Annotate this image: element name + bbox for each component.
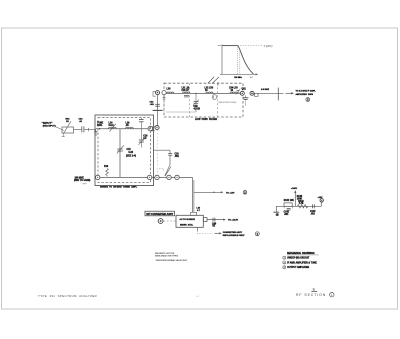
faint dashed drop from LPF [156,116,158,167]
terminal circle on rail x97.7 [96,175,100,179]
bracket left of lower connector [153,126,155,130]
page number [196,296,200,298]
bottom rail wire [95,176,192,178]
capacitor C16 branch [139,129,144,148]
svg-text:SEMICONDUCTOR TYPES: SEMICONDUCTOR TYPES [155,256,179,258]
label C15 value [126,149,136,157]
svg-text:R141 10K: R141 10K [284,199,295,202]
trimmer near output [236,89,240,95]
reference item 1 [283,256,310,259]
svg-text:TYPE 491 SPECTRUM ANALYZER: TYPE 491 SPECTRUM ANALYZER [38,294,98,298]
svg-text:100K: 100K [297,199,303,201]
svg-text:B: B [313,287,315,291]
svg-text:1ST CONVERTER ASSY: 1ST CONVERTER ASSY [146,213,173,216]
graph horizontal axis [220,73,258,75]
shield bar on column [153,109,163,111]
1st converter label bar [145,211,175,216]
attenuator R10 [62,121,74,134]
divider top tick [217,82,219,86]
graph dashed horizontal [240,45,263,47]
mixer top flange [191,212,197,215]
terminal circle +12V [320,199,323,202]
ground under Q31 [243,95,249,106]
inductor L16 label [126,122,131,126]
coax connector circle lower x157 [155,125,159,129]
label C16 value [143,135,148,139]
label on column [150,102,155,106]
svg-text:IF AMP, AMPLIFIER & TUNE: IF AMP, AMPLIFIER & TUNE [287,261,317,264]
label R141 [284,199,295,202]
inductor L32 [206,92,213,93]
label TO +12V [226,192,235,194]
ground bus inside LPF [164,99,196,112]
node junction at amp input [99,128,100,129]
svg-text:TO +12.5V: TO +12.5V [228,220,239,222]
node on +12V wire [213,192,214,193]
graph response curve [238,46,254,75]
transistor Q14 [148,126,153,131]
label R142 [298,200,304,205]
svg-text:200 MHz: 200 MHz [234,77,242,79]
label R16 [104,166,109,168]
svg-text:⌜INPUT⌝: ⌜INPUT⌝ [42,121,53,125]
wire main line LPF [166,92,241,94]
capacitor C142 [312,204,314,208]
svg-text:(SEE 1-4): (SEE 1-4) [126,154,136,157]
svg-text:TO +12V: TO +12V [226,192,235,194]
wire C12 to amplifier box [84,128,96,130]
title RF SECTION [296,293,326,297]
variable capacitor C32 [193,93,199,112]
svg-text:MIXER XTAL: MIXER XTAL [180,224,194,227]
graph label F(MHz) [264,45,273,48]
resistor R16 [106,169,109,177]
graph dashed vertical 1 [237,46,239,74]
svg-text:SEE PARTS LIST FOR: SEE PARTS LIST FOR [155,252,175,255]
wire chain to arrow [254,92,284,94]
svg-text:(50Ω INPUT): (50Ω INPUT) [43,126,56,128]
arrowhead mixer output [223,219,226,221]
connector circle on LPF edge [162,91,166,95]
dashed leader from mixer stub [199,232,213,234]
graph tick label 200MHz [234,77,242,79]
svg-text:.001: .001 [175,156,180,158]
connector bracket after Q31 [255,93,258,96]
connector circle chain x252 [250,91,254,95]
wire vertical connector column [157,95,159,126]
cap assembly right of amp box [154,150,172,164]
shunt capacitor at amp input [94,129,97,135]
svg-text:OUTPUT AMPLIFIER: OUTPUT AMPLIFIER [287,266,309,269]
svg-text:(SELECTED IN 50Ω): (SELECTED IN 50Ω) [219,102,237,104]
svg-text:F (MHz): F (MHz) [264,45,273,48]
svg-text:4.5 MHZ: 4.5 MHZ [261,88,270,91]
bias rail wire [276,205,321,207]
label C141 [284,211,290,216]
leader line from INPUT label [55,127,64,131]
transistor Q31 label [242,88,247,90]
parallel LC L31/C31 [183,92,190,97]
junction tick on input wire [88,128,90,131]
svg-text:COIL: COIL [97,125,103,127]
label mixer output [228,220,239,222]
label T14 tune coil [97,122,104,126]
circled 2 reference [306,98,310,102]
note see parts list [155,252,188,262]
circled 1 RF SECTION [330,293,334,298]
pointer line graph to LPF 2 [212,77,219,84]
graph response flat top [222,45,238,47]
switch arm above rail [165,167,171,177]
label R140 [297,195,303,200]
wire +12V feed [194,191,221,193]
low pass filter internal divider 1 [189,83,191,117]
100MHz amplifier enclosure (inner dashed) [98,118,151,183]
svg-text:SWEEP (W) CIRCUIT: SWEEP (W) CIRCUIT [287,258,310,260]
svg-text:REFERENCE DRAWINGS: REFERENCE DRAWINGS [287,252,315,255]
reference drawings underline [287,254,319,256]
mixer output stub [203,218,207,222]
label L40 above mixer [197,207,201,212]
capacitor C17 [139,118,144,129]
capacitor C40 [213,218,215,222]
label LOW PASS FILTER [195,118,217,121]
inductor L30 [167,92,174,93]
graph tick label 300 [250,77,253,79]
variable inductor L14 [109,124,117,132]
label C142 [310,210,316,215]
mixer box [176,215,203,227]
svg-text:4.7K: 4.7K [299,202,304,205]
svg-text:* INDICATES NOMINAL VALUE ONLY: * INDICATES NOMINAL VALUE ONLY [155,259,188,262]
arrowhead +12V wire [221,191,224,193]
terminal circle on rail x169 [167,175,171,179]
arrow converter note [215,232,222,234]
connector tick x278 [277,88,279,101]
label C40 [212,222,217,227]
node junction x196 [195,93,196,94]
wire mixer output [207,219,224,221]
reference item 3 [283,266,310,269]
resistor R141 [284,203,292,206]
label +12V [318,197,324,199]
terminal circle on rail x149.7 [148,175,152,179]
label 4.5MHz on wire [261,88,270,91]
graph axis tick label [218,45,221,47]
inductor L30 label [167,89,172,91]
arrow to IF amp [286,92,294,94]
title TYPE 491 SPECTRUM ANALYZER [38,294,98,298]
revision mark above RF SECTION [311,287,317,291]
wire vertical branch at x120 [119,129,121,178]
+100V feed wire [294,190,296,206]
terminal circle on rail x157 [155,175,159,179]
svg-text:RF SECTION: RF SECTION [296,293,326,297]
svg-text:TO 4.5 MHZ IF AMPL: TO 4.5 MHZ IF AMPL [296,90,317,93]
capacitor under edge connector [163,95,166,99]
bracket left of connector [153,92,156,97]
svg-text:1K: 1K [66,121,69,123]
capacitor C12 label [79,118,84,123]
L32 labels [205,88,214,92]
note TO 4.5MHZ IF AMPLIFIER [296,90,317,96]
label left of box 100MHz [74,177,91,182]
inductor L33 [230,92,237,93]
connector circle LPF output [240,91,244,95]
connector circle at converter [158,219,163,224]
svg-text:.001: .001 [311,213,316,215]
inductor L16 [126,127,134,129]
label C18 [175,154,180,158]
wire rise to +12V terminal [320,202,322,206]
terminal circle on rail x177 [175,175,179,179]
node INPUT label [42,121,56,128]
variable inductor L14 label [109,121,115,126]
graph dashed vertical 2 [239,48,241,74]
mixer bottom stub [197,227,199,234]
coax connector circle upper x157.5 [156,91,160,95]
svg-text:300: 300 [250,77,253,79]
graph vertical axis [221,44,223,74]
capacitor C141 [284,206,293,210]
svg-text:REPLACEABLE ONLY: REPLACEABLE ONLY [223,234,245,237]
capacitor on column [155,104,160,106]
note converter assy [223,231,245,237]
wire main line inside amplifier [96,128,148,130]
svg-text:Q31: Q31 [242,88,247,90]
svg-text:4.5-25: 4.5-25 [194,108,201,111]
svg-text:CONVERTER ASSY: CONVERTER ASSY [223,231,243,234]
svg-text:100MHZ TO 400 MHZ TUNED AM: 100MHZ TO 400 MHZ TUNED AMPL [100,186,138,189]
low pass filter enclosure (dashed) [164,83,243,117]
svg-text:LOW PASS FILTER: LOW PASS FILTER [195,118,217,121]
dashed wire to mixer box [163,220,175,222]
svg-text:(50Ω TO 4.5dB): (50Ω TO 4.5dB) [74,179,91,182]
resistor R10 value label [66,118,71,123]
ground at bias network [273,206,279,216]
circled 1 converter note [255,232,259,236]
note text selected [219,102,237,104]
label C32 [194,106,201,111]
ground stub under attenuator [62,133,65,136]
100MHz amplifier enclosure (solid) [95,115,154,186]
low pass filter internal divider 2 [217,83,219,117]
variable capacitor C15 [117,145,124,154]
diagonal to rail [165,165,170,177]
reference drawings title [287,252,315,255]
svg-text:4.5 TO 96.5MHZ: 4.5 TO 96.5MHZ [180,218,196,221]
svg-text:+12V: +12V [318,197,324,199]
C34 L33 labels [229,87,238,92]
transistor Q30 [212,93,217,99]
L31 C31 labels [182,88,190,92]
label under amplifier box [100,186,138,189]
leader dash left of box [83,183,87,185]
pointer line graph to LPF 1 [208,77,214,84]
resistor R142 [297,205,307,208]
label +100V [291,188,298,190]
capacitor C12 [82,126,84,132]
svg-text:5-25: 5-25 [129,152,134,154]
svg-text:.001: .001 [284,214,289,216]
circled 2 on +12V wire [243,191,247,195]
svg-text:AMPLIFIER DWG: AMPLIFIER DWG [296,93,314,96]
reference item 2 [283,261,317,264]
bracket over rail connectors [157,169,164,172]
coax pair down to mixer [192,177,194,212]
wire input to C12 [74,129,82,131]
svg-text:+100V: +100V [291,188,298,190]
